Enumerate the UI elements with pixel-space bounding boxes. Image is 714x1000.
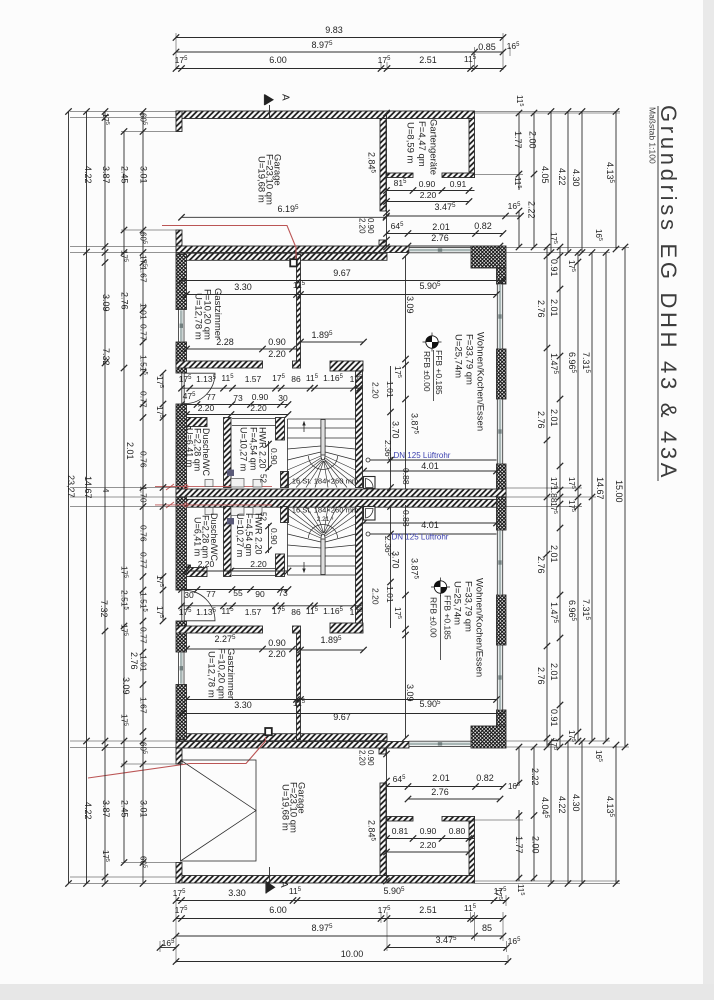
- svg-text:2.01: 2.01: [125, 442, 135, 460]
- wall: house rear wall bottom (band2 garage side): [176, 734, 387, 741]
- svg-text:10.00: 10.00: [341, 949, 364, 959]
- wall: house front wall top (band2 garage side): [176, 253, 387, 260]
- svg-text:52: 52: [259, 474, 268, 483]
- door arc entrance top unit: [185, 373, 216, 404]
- staircase top unit: [288, 419, 359, 488]
- svg-text:1.57: 1.57: [245, 374, 262, 384]
- wall: right outer wall seg1 bottom: [497, 710, 507, 726]
- svg-text:2.76: 2.76: [536, 411, 546, 429]
- svg-text:7.32: 7.32: [99, 600, 109, 618]
- svg-text:0.77: 0.77: [139, 627, 149, 644]
- svg-text:2.20: 2.20: [198, 403, 215, 413]
- wall: right outer wall pier bottom: [497, 595, 507, 645]
- svg-text:3.09: 3.09: [405, 684, 415, 702]
- svg-text:0.90: 0.90: [269, 448, 279, 465]
- wall: gastzimmer wall stub bottom unit: [293, 626, 301, 633]
- svg-text:0.88: 0.88: [401, 468, 411, 485]
- dusche dim 0.90 bottom unit: [268, 524, 270, 553]
- svg-text:A: A: [278, 881, 289, 888]
- window: house bottom wall window: [409, 741, 471, 746]
- right house chain 6.96 col: [577, 253, 579, 742]
- right bottom block chain 2.00: [533, 747, 535, 881]
- svg-text:77: 77: [206, 589, 216, 599]
- section marker A top: [265, 94, 275, 106]
- wall: garage wall stub at house top: [379, 240, 386, 247]
- window: right wall window1 top unit: [497, 284, 502, 349]
- svg-text:4.22: 4.22: [557, 796, 567, 814]
- svg-text:2.22: 2.22: [527, 201, 537, 219]
- section line A top: [269, 105, 271, 119]
- svg-text:0.91: 0.91: [549, 259, 559, 277]
- svg-text:6.00: 6.00: [269, 905, 287, 915]
- svg-text:1.01: 1.01: [139, 655, 149, 672]
- right house chain 14.67 col: [605, 253, 607, 742]
- wall: garage left pillar bottom-b: [176, 747, 182, 764]
- svg-text:3.30: 3.30: [234, 700, 252, 710]
- right house chain 15.00 col: [624, 247, 626, 747]
- svg-text:30: 30: [184, 590, 194, 600]
- red utility line top: [162, 226, 296, 260]
- svg-text:FFB +0.185: FFB +0.185: [434, 350, 444, 395]
- svg-text:2.20: 2.20: [250, 403, 267, 413]
- svg-text:2.20: 2.20: [371, 588, 381, 605]
- svg-text:1.01: 1.01: [139, 303, 149, 320]
- wall: gartengeraete right wall bottom: [469, 817, 475, 876]
- wall: garage right wall bottom: [380, 783, 386, 876]
- right extension lines: [475, 111, 621, 113]
- svg-text:4: 4: [101, 488, 110, 493]
- left extension lines: [70, 111, 176, 113]
- svg-text:9.83: 9.83: [325, 25, 343, 35]
- wall: hall wall below stair bottom unit: [330, 623, 363, 633]
- wall: gastzimmer/wohnen partition bottom: [297, 631, 301, 740]
- svg-text:2.20: 2.20: [358, 218, 367, 234]
- wall: hwr door lines bottom unit: [232, 575, 276, 577]
- chimney block top unit: [290, 259, 297, 266]
- wall: stair-left wall block bottom top unit: [281, 472, 289, 488]
- wall: garage+gartengeraete bottom outer wall: [176, 876, 475, 884]
- staircase bottom unit: [288, 506, 359, 576]
- svg-text:4.05: 4.05: [540, 166, 550, 184]
- FFB level symbol bottom unit: [431, 578, 450, 597]
- svg-text:2.20: 2.20: [268, 649, 286, 659]
- wall: hwr door lines top unit: [232, 418, 276, 420]
- svg-text:0.85: 0.85: [478, 42, 496, 52]
- svg-text:4.01: 4.01: [421, 520, 439, 530]
- dim 3.70/2.36 top unit: [390, 366, 392, 489]
- svg-text:4.22: 4.22: [83, 802, 93, 820]
- svg-text:2.01: 2.01: [549, 545, 559, 563]
- right house chain 7.31 col: [591, 253, 593, 742]
- wall: left outer wall seg1 bottom: [176, 685, 187, 740]
- svg-text:1.01: 1.01: [385, 381, 395, 398]
- wall: house front wall top (band1): [176, 246, 409, 253]
- svg-text:2.45: 2.45: [120, 166, 130, 184]
- svg-text:2.20: 2.20: [268, 349, 286, 359]
- svg-text:2.01: 2.01: [432, 773, 450, 783]
- wall: gartengeraete top wall right seg bottom: [442, 817, 475, 822]
- wall: party wall leaf 2: [176, 499, 506, 507]
- right top block chain 2.00: [533, 113, 535, 247]
- svg-text:2.00: 2.00: [528, 131, 538, 149]
- dim 3.70/2.36 bottom unit: [390, 505, 392, 628]
- dim 4.01 top unit + lueftrohr: [366, 458, 370, 462]
- svg-text:2.20: 2.20: [420, 840, 437, 850]
- svg-text:6.00: 6.00: [269, 55, 287, 65]
- wall: right outer wall pier top: [497, 349, 507, 399]
- svg-text:U=6,41 m: U=6,41 m: [185, 428, 195, 467]
- svg-text:DN 125 Lüftrohr: DN 125 Lüftrohr: [392, 533, 449, 542]
- dim chain garage right bottom: [386, 747, 388, 881]
- section marker A bottom: [266, 881, 276, 894]
- svg-text:0.80: 0.80: [449, 826, 466, 836]
- dim 3.09 kitchen bottom unit: [405, 505, 407, 738]
- svg-text:2.20: 2.20: [358, 750, 367, 766]
- svg-text:0.90: 0.90: [419, 179, 436, 189]
- wall: house top-right corner block: [471, 246, 506, 268]
- svg-text:2.76: 2.76: [536, 300, 546, 318]
- svg-text:9.67: 9.67: [333, 268, 351, 278]
- svg-text:U=19,68 m: U=19,68 m: [280, 784, 291, 831]
- wall: dusche bottom wall bottom unit: [187, 568, 208, 577]
- svg-text:23,27: 23,27: [66, 475, 76, 498]
- wall: left outer wall pier2 bottom: [176, 621, 187, 652]
- svg-text:2.76: 2.76: [431, 233, 449, 243]
- wall: left wall inner pier top: [187, 418, 191, 430]
- section line A bottom: [269, 867, 271, 885]
- svg-text:F=4,47 qm: F=4,47 qm: [416, 121, 427, 167]
- floor drain box bottom unit: [364, 507, 376, 521]
- svg-text:2.76: 2.76: [536, 667, 546, 685]
- svg-text:3.01: 3.01: [139, 166, 149, 184]
- svg-text:90: 90: [255, 589, 265, 599]
- window: right wall window2 bottom unit: [497, 530, 502, 595]
- wall: garage left pillar top-a: [176, 111, 182, 132]
- witness lines top rows: [175, 33, 177, 70]
- svg-text:Maßstab 1:100: Maßstab 1:100: [648, 107, 658, 164]
- svg-text:0.77: 0.77: [139, 552, 149, 569]
- svg-text:1.77: 1.77: [514, 836, 524, 854]
- wall: garage+gartengeraete top outer wall: [176, 111, 475, 119]
- wall: gartengeraete right wall top: [469, 119, 475, 178]
- svg-text:HWR 2.20: HWR 2.20: [254, 513, 264, 555]
- dusche dim 0.90 top unit: [268, 441, 270, 470]
- svg-text:2.51: 2.51: [419, 55, 437, 65]
- svg-text:2.20: 2.20: [371, 382, 381, 399]
- red utility line bottom: [88, 737, 266, 778]
- door frame left entrance bottom: [182, 620, 185, 622]
- svg-text:0.76: 0.76: [139, 525, 149, 542]
- fixture in dusche bottom unit: [227, 518, 234, 524]
- red marks at party wall top: [155, 486, 272, 488]
- svg-text:0.91: 0.91: [549, 709, 559, 727]
- left dim chain line 3.01: [142, 112, 144, 884]
- svg-text:U=12,78 m: U=12,78 m: [206, 651, 217, 698]
- window: left wall window top unit: [179, 310, 184, 343]
- right top block chain 4.30: [581, 112, 583, 253]
- svg-text:DN 125 Lüftrohr: DN 125 Lüftrohr: [394, 451, 451, 460]
- svg-text:16 St. 184×260 mm: 16 St. 184×260 mm: [292, 506, 359, 515]
- left dim chain line 3.87: [104, 112, 106, 884]
- wall: garage left pillar bottom-a: [176, 863, 182, 884]
- svg-text:2.45: 2.45: [120, 800, 130, 818]
- svg-text:2.01: 2.01: [549, 409, 559, 427]
- wall: right outer wall seg1 top: [497, 268, 507, 284]
- wall: gartengeraete bottom wall left seg top: [387, 173, 413, 178]
- window: left wall window bottom unit: [179, 652, 184, 685]
- svg-text:2.76: 2.76: [120, 292, 130, 310]
- svg-text:0.81: 0.81: [392, 826, 409, 836]
- window: right wall window2 top unit: [497, 399, 502, 464]
- svg-text:Grundriss EG DHH 43 & 43A: Grundriss EG DHH 43 & 43A: [656, 105, 681, 481]
- svg-text:0.77: 0.77: [139, 391, 149, 408]
- wall: party wall leaf 1: [176, 489, 506, 497]
- svg-text:3.70: 3.70: [391, 421, 401, 439]
- left dim chain line 4.22/14.67: [86, 112, 88, 884]
- wall: house bottom-right corner block: [471, 726, 506, 748]
- right house chain 2.76 col: [546, 247, 548, 747]
- svg-text:0.88: 0.88: [401, 510, 411, 527]
- svg-text:86: 86: [291, 374, 301, 384]
- wall: hwr right wall bottom unit: [276, 554, 285, 577]
- svg-text:0.90: 0.90: [420, 826, 437, 836]
- svg-text:3.30: 3.30: [228, 888, 246, 898]
- svg-text:2.00: 2.00: [531, 836, 541, 854]
- svg-text:3.09: 3.09: [101, 294, 111, 312]
- svg-text:FFB +0.185: FFB +0.185: [443, 595, 453, 640]
- wall: gastzimmer bottom wall stub top unit: [293, 361, 301, 368]
- svg-text:7.32: 7.32: [101, 348, 111, 366]
- wall: garage wall stub at house bottom: [379, 747, 386, 754]
- svg-text:2.01: 2.01: [432, 222, 450, 232]
- svg-text:2.21 ³: 2.21 ³: [317, 516, 334, 523]
- svg-text:3.30: 3.30: [234, 282, 252, 292]
- wall: left wall inner pier bottom: [187, 565, 191, 577]
- svg-text:F=33,79 qm: F=33,79 qm: [463, 581, 474, 632]
- wall: left outer wall seg3 top: [176, 404, 187, 497]
- left dim chain line 23.27: [68, 112, 70, 884]
- wall: stair right wall bottom unit: [356, 507, 363, 624]
- wall: garage left pillar top-b: [176, 230, 182, 247]
- svg-text:Gastzimmer: Gastzimmer: [212, 288, 223, 339]
- fixtures along party wall bottom unit: [205, 507, 262, 516]
- svg-text:Wohnen/Kochen/Essen: Wohnen/Kochen/Essen: [475, 332, 486, 431]
- wall: right outer wall seg3 bottom: [497, 497, 507, 530]
- chimney block bottom unit: [265, 728, 272, 735]
- svg-text:U=12,78 m: U=12,78 m: [193, 293, 204, 340]
- wall: hall wall above stair top unit: [330, 361, 363, 371]
- svg-text:1.70: 1.70: [139, 486, 149, 503]
- wall: left outer wall seg1 top: [176, 255, 187, 310]
- svg-text:2.01: 2.01: [549, 299, 559, 317]
- window: house top wall window: [409, 247, 471, 252]
- svg-text:3.87: 3.87: [101, 166, 111, 184]
- svg-text:2.20: 2.20: [420, 190, 437, 200]
- svg-text:1.67: 1.67: [139, 266, 149, 283]
- floor drain box top unit: [364, 477, 376, 489]
- svg-text:77: 77: [206, 392, 216, 402]
- svg-text:4.22: 4.22: [83, 166, 93, 184]
- svg-text:U=10,27 m: U=10,27 m: [239, 427, 249, 471]
- right bottom block chain 4.04: [550, 742, 552, 884]
- svg-text:85: 85: [482, 923, 492, 933]
- svg-text:0.82: 0.82: [474, 221, 492, 231]
- svg-text:2.76: 2.76: [431, 787, 449, 797]
- svg-text:F=33,79 qm: F=33,79 qm: [464, 334, 475, 385]
- svg-text:2.20: 2.20: [250, 559, 267, 569]
- wall: stair-left wall block bottom unit: [281, 507, 289, 523]
- right bottom block chain 4.13: [615, 745, 617, 884]
- svg-text:3.87: 3.87: [101, 800, 111, 818]
- svg-text:15.00: 15.00: [614, 480, 624, 503]
- door frame left entrance top: [182, 372, 185, 374]
- svg-text:1.01: 1.01: [385, 586, 395, 603]
- svg-text:4.30: 4.30: [571, 169, 581, 187]
- svg-text:0.77: 0.77: [139, 324, 149, 341]
- svg-text:2.22: 2.22: [530, 768, 540, 786]
- dim 3.09 kitchen top unit: [405, 256, 407, 489]
- svg-text:1.77: 1.77: [513, 131, 523, 149]
- svg-text:16 St. 184×260 mm: 16 St. 184×260 mm: [292, 477, 359, 486]
- wall: house rear wall bottom (band1): [176, 742, 409, 749]
- wall: gartengeraete bottom wall right seg top: [442, 173, 475, 178]
- right top block chain 1.77: [518, 113, 520, 190]
- wall: right outer wall seg3 top: [497, 464, 507, 497]
- wall: dusche top wall top unit: [187, 418, 208, 427]
- left dim chain line 2.45: [123, 132, 125, 863]
- svg-text:Wohnen/Kochen/Essen: Wohnen/Kochen/Essen: [474, 578, 485, 677]
- wall: left outer wall seg3 bottom: [176, 497, 187, 590]
- wall: gartengeraete top wall left seg bottom: [387, 817, 413, 822]
- svg-text:3.01: 3.01: [139, 800, 149, 818]
- svg-text:U=19,68 m: U=19,68 m: [256, 156, 267, 203]
- svg-text:0.90: 0.90: [268, 638, 286, 648]
- svg-text:2.76: 2.76: [129, 652, 139, 670]
- wall: stair right wall top unit: [356, 371, 363, 488]
- svg-text:U=25,74m: U=25,74m: [452, 581, 463, 625]
- svg-text:0.82: 0.82: [476, 773, 494, 783]
- right top block chain 4.13: [615, 112, 617, 250]
- svg-text:RFB ±0.00: RFB ±0.00: [429, 597, 439, 638]
- dim 4.01 bottom unit + lueftrohr: [366, 532, 370, 536]
- svg-text:1.88: 1.88: [549, 486, 559, 503]
- svg-text:86: 86: [291, 607, 301, 617]
- witness lines bottom rows: [175, 895, 177, 963]
- wall: gastzimmer top wall bottom unit: [176, 626, 263, 633]
- svg-text:0.76: 0.76: [139, 451, 149, 468]
- svg-text:4.01: 4.01: [421, 461, 439, 471]
- svg-text:U=6,41 m: U=6,41 m: [193, 517, 203, 556]
- wall: garage right wall top: [380, 119, 386, 212]
- svg-text:3.09: 3.09: [121, 677, 131, 695]
- svg-text:2.01: 2.01: [549, 663, 559, 681]
- right bottom block chain 4.30: [581, 742, 583, 884]
- door arc entrance bottom unit: [185, 590, 216, 621]
- wall: left outer wall pier2 top: [176, 342, 187, 373]
- dim chain garage right top: [386, 113, 388, 247]
- svg-text:0.90: 0.90: [269, 528, 279, 545]
- right house chain 2.01 col: [559, 247, 561, 747]
- svg-text:2.51: 2.51: [419, 905, 437, 915]
- svg-text:4.22: 4.22: [557, 168, 567, 186]
- svg-text:F=4,54 qm: F=4,54 qm: [249, 427, 259, 470]
- right bottom block chain 4.22: [567, 742, 569, 884]
- svg-text:U=8,59 m: U=8,59 m: [405, 122, 416, 164]
- svg-text:RFB ±0.00: RFB ±0.00: [422, 351, 432, 392]
- wall: gastzimmer bottom wall top unit: [176, 361, 263, 368]
- window: right wall window1 bottom unit: [497, 645, 502, 710]
- wall: gastzimmer/wohnen partition top: [297, 255, 301, 364]
- svg-text:Gartengeräte: Gartengeräte: [428, 119, 439, 175]
- svg-text:0.90: 0.90: [252, 392, 269, 402]
- garage door bottom: [181, 760, 257, 861]
- svg-text:3.09: 3.09: [405, 296, 415, 314]
- fixtures along party wall top unit: [205, 479, 262, 488]
- svg-text:A: A: [280, 94, 291, 101]
- svg-text:2.76: 2.76: [536, 556, 546, 574]
- red marks at party wall bottom: [155, 504, 272, 506]
- svg-text:0.90: 0.90: [268, 337, 286, 347]
- right top block chain 4.05: [550, 112, 552, 253]
- wall: dusche/hwr partition bottom unit: [224, 507, 232, 577]
- wall: hwr right wall top unit: [276, 418, 285, 441]
- fixture in dusche top unit: [227, 470, 234, 476]
- wall: dusche/hwr partition top unit: [224, 418, 232, 488]
- right bottom block chain 1.77: [518, 810, 520, 881]
- left dim chain line hall: [162, 373, 164, 621]
- svg-text:4.30: 4.30: [571, 794, 581, 812]
- svg-text:U=25,74m: U=25,74m: [453, 334, 464, 378]
- FFB level symbol top unit: [423, 333, 442, 352]
- right top block chain 4.22: [567, 112, 569, 253]
- svg-text:U=10,27 m: U=10,27 m: [235, 513, 245, 557]
- svg-text:14.67: 14.67: [595, 477, 605, 500]
- svg-text:0.91: 0.91: [450, 179, 467, 189]
- svg-text:1.67: 1.67: [139, 697, 149, 714]
- svg-text:1.57: 1.57: [245, 607, 262, 617]
